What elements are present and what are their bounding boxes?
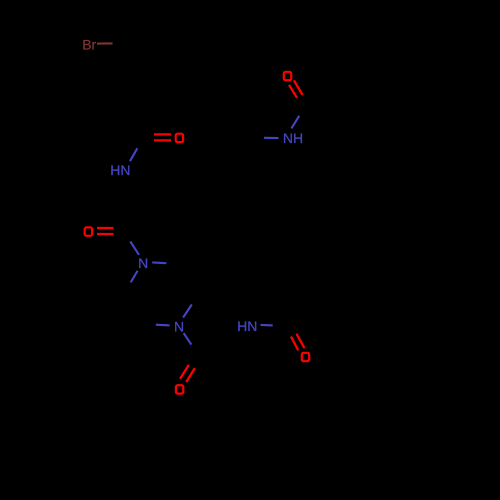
wire N1 ring bond right (152, 261, 166, 264)
wire C-N1 bond (130, 242, 139, 255)
wire N2-C bond down-right (184, 333, 192, 345)
wire NH-C bond (291, 116, 299, 129)
wire C=O3 double bond (180, 365, 189, 379)
svg-text:NH: NH (283, 130, 303, 146)
wire Br-C bond (97, 42, 113, 44)
wire C=O2 double bond (97, 227, 113, 229)
svg-text:N: N (174, 319, 184, 335)
wire NH-CH3 bond (264, 137, 279, 139)
svg-text:HN: HN (237, 318, 257, 334)
wire C=O5 double bond (289, 85, 297, 98)
carbonyl O3 (176, 385, 183, 393)
wire HN2-C bond (261, 324, 273, 327)
wire C=O1 double bond (154, 133, 171, 135)
svg-text:N: N (138, 255, 148, 271)
wire N2 ring bond left (156, 324, 170, 327)
carbonyl O5 (284, 72, 291, 80)
svg-text:HN: HN (110, 162, 130, 178)
svg-text:Br: Br (82, 36, 96, 52)
carbonyl O1 (176, 134, 183, 142)
wire C=O4 double bond (291, 337, 298, 351)
carbonyl O4 (302, 353, 309, 361)
wire HN1-C bond (130, 148, 137, 161)
carbonyl O2 (85, 227, 92, 235)
wire N1 ring bond down-left (131, 271, 138, 283)
wire N2 ring bond up-right (183, 305, 192, 318)
